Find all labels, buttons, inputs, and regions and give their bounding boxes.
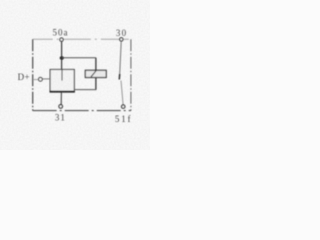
switch lever from terminal 30 (upper, light) <box>120 42 122 74</box>
relay coil box <box>50 70 74 92</box>
terminal 31 <box>59 105 63 109</box>
terminal D+ <box>39 77 43 81</box>
terminal 30 <box>120 38 123 41</box>
switch lever lower end (dark) <box>118 74 120 80</box>
wire: junction to contact box (horizontal) <box>62 57 96 59</box>
wire: D+ terminal to relay coil <box>43 78 51 80</box>
contact diagonal <box>91 70 96 77</box>
scan noise overlay <box>0 0 1 1</box>
relay coil bottom edge (thick) <box>50 91 75 93</box>
wire: relay coil to terminal 31 <box>60 93 62 105</box>
coil inner line <box>61 70 63 81</box>
wire: down into contact box top <box>95 58 97 71</box>
wire: terminal 50a down to relay coil <box>61 42 63 70</box>
device outline right edge (dash-dot) <box>130 39 132 110</box>
wire: to relay coil right side <box>74 89 96 91</box>
terminal 50a <box>60 38 63 41</box>
device outline left edge (dash-dot) <box>32 39 34 110</box>
wire: fixed contact down to 51f <box>121 81 123 105</box>
terminal 51f <box>122 105 125 108</box>
junction node (50a / contact feed) <box>60 56 64 59</box>
wire: D+ stub from outline <box>33 79 38 81</box>
device outline top edge (dash-dot) <box>33 38 131 40</box>
wire: contact box bottom down <box>95 78 97 90</box>
contact box (switch) <box>85 70 106 77</box>
device outline bottom edge (dash-dot) <box>33 110 131 112</box>
